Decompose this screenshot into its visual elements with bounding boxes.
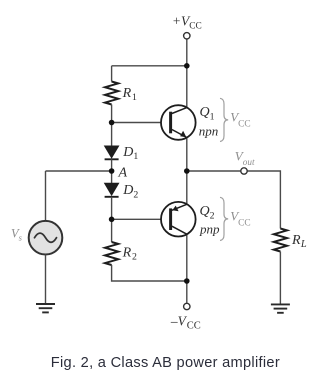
svg-text:pnp: pnp bbox=[199, 221, 220, 236]
svg-text:Vout: Vout bbox=[235, 149, 255, 168]
wire Vs top lead bbox=[45, 171, 47, 220]
wire Vout junction to Q2 emitter bbox=[186, 171, 188, 204]
junction dot bottom rail bbox=[184, 278, 190, 284]
wire D1 cathode to node A bbox=[111, 159, 113, 171]
svg-text:Q2: Q2 bbox=[200, 204, 215, 221]
wire R1 bottom to D1 anode bbox=[111, 105, 113, 147]
svg-text:D2: D2 bbox=[122, 183, 138, 200]
svg-text:Vs: Vs bbox=[11, 227, 23, 243]
ground (Vs) bbox=[36, 304, 55, 312]
wire left branch R1 top lead bbox=[111, 66, 113, 82]
source Vs bbox=[29, 221, 63, 255]
terminal +Vcc bbox=[184, 33, 190, 39]
svg-text:RL: RL bbox=[291, 233, 307, 250]
junction dot Q1 base bbox=[109, 120, 115, 126]
svg-text:+VCC: +VCC bbox=[172, 13, 202, 31]
diode D1 bbox=[105, 146, 119, 159]
svg-text:D1: D1 bbox=[122, 145, 138, 162]
ground (RL) bbox=[271, 304, 290, 312]
svg-text:A: A bbox=[118, 166, 128, 181]
node A junction dot bbox=[109, 168, 115, 174]
brace Vcc (Q1) bbox=[220, 98, 228, 141]
wire top rail horizontal bbox=[112, 65, 187, 67]
terminal -Vcc bbox=[184, 303, 190, 309]
transistor Q2 bbox=[161, 202, 196, 237]
wire RL bottom lead bbox=[279, 252, 281, 305]
wire D2 cathode to lower junction bbox=[111, 197, 113, 220]
wire lower junction to R2 top bbox=[111, 219, 113, 242]
wire Q1 emitter to Vout junction bbox=[186, 138, 188, 172]
wire node A to D2 anode bbox=[111, 171, 113, 183]
wire bottom junction to -Vcc terminal bbox=[186, 281, 188, 303]
resistor RL bbox=[274, 229, 287, 252]
wire Q2 collector to bottom junction bbox=[186, 234, 188, 281]
junction dot Q2 base bbox=[109, 217, 115, 223]
wire Vout junction to Vout terminal bbox=[187, 170, 241, 172]
resistor R1 bbox=[105, 82, 118, 105]
brace Vcc (Q2) bbox=[220, 197, 228, 240]
svg-text:VCC: VCC bbox=[230, 110, 250, 130]
wire Q1 base wire bbox=[112, 122, 161, 124]
terminal Vout bbox=[241, 168, 247, 174]
svg-text:Q1: Q1 bbox=[200, 105, 215, 122]
wire Vs bottom lead bbox=[45, 255, 47, 304]
wire Q2 base wire bbox=[112, 218, 161, 220]
wire +Vcc terminal to top junction bbox=[186, 39, 188, 66]
svg-text:npn: npn bbox=[199, 123, 219, 138]
diode D2 bbox=[105, 183, 119, 197]
junction dot Vout bbox=[184, 168, 190, 174]
resistor R2 bbox=[105, 242, 118, 265]
wire R2 bottom corner to bottom junction bbox=[112, 265, 187, 281]
junction dot top rail bbox=[184, 63, 190, 69]
svg-text:–VCC: –VCC bbox=[170, 313, 201, 331]
wire node A to Vs branch bbox=[46, 170, 112, 172]
wire top junction to Q1 collector bbox=[186, 66, 188, 108]
svg-text:VCC: VCC bbox=[230, 209, 250, 229]
svg-text:R2: R2 bbox=[122, 246, 137, 263]
transistor Q1 bbox=[161, 105, 196, 140]
wire Vout terminal to RL corner bbox=[247, 171, 280, 229]
svg-text:Fig. 2, a Class AB power ampli: Fig. 2, a Class AB power amplifier bbox=[51, 355, 280, 371]
svg-text:R1: R1 bbox=[122, 86, 137, 103]
